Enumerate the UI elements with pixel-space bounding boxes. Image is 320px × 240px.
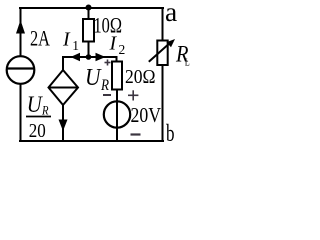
svg-text:U: U xyxy=(85,64,103,91)
current source 2A bar xyxy=(7,67,34,69)
label fraction bar xyxy=(26,116,51,118)
wire right branch upper xyxy=(162,7,164,41)
wire diamond bottom lead xyxy=(62,105,64,141)
svg-text:R: R xyxy=(100,77,109,94)
svg-text:b: b xyxy=(166,120,175,147)
svg-text:U: U xyxy=(27,92,43,117)
wire left branch upper xyxy=(20,7,22,57)
svg-text:20Ω: 20Ω xyxy=(125,66,156,88)
wire through 20V source xyxy=(116,90,118,142)
node mid junction dot xyxy=(86,54,92,60)
node top junction dot xyxy=(86,5,92,11)
svg-text:2: 2 xyxy=(119,42,126,57)
wire left branch lower xyxy=(20,83,22,141)
current I2 arrow xyxy=(96,53,106,61)
resistor RL xyxy=(157,41,167,66)
svg-text:L: L xyxy=(185,57,190,69)
wire diamond top lead xyxy=(62,56,64,70)
current source 2A circle xyxy=(7,56,35,84)
wire bottom xyxy=(19,140,164,142)
svg-text:I: I xyxy=(109,32,118,54)
current source 2A arrow xyxy=(16,20,25,34)
svg-text:a: a xyxy=(165,0,177,27)
wire 10ohm top lead xyxy=(88,8,90,19)
svg-text:20V: 20V xyxy=(131,103,162,127)
minus mark UR bottom xyxy=(103,94,111,96)
wire 10ohm bottom lead xyxy=(88,42,90,58)
wire 20ohm top corner xyxy=(116,56,118,62)
dependent source bar xyxy=(49,87,79,89)
svg-text:1: 1 xyxy=(72,38,79,53)
minus mark 20V bottom xyxy=(131,133,141,135)
resistor 10ohm xyxy=(83,19,94,42)
svg-text:R: R xyxy=(41,103,48,118)
wire middle horizontal xyxy=(63,56,117,58)
svg-text:2A: 2A xyxy=(30,26,50,51)
svg-text:20: 20 xyxy=(29,120,46,142)
dependent source down arrow xyxy=(59,120,68,132)
current I1 arrow xyxy=(71,53,81,61)
dependent source diamond xyxy=(49,70,79,105)
voltage source 20V circle xyxy=(104,101,130,127)
svg-text:10Ω: 10Ω xyxy=(94,13,123,38)
wire right branch lower xyxy=(162,65,164,141)
plus mark 20V top xyxy=(128,90,138,100)
wire top xyxy=(19,7,164,9)
plus mark UR top xyxy=(105,60,111,66)
svg-text:I: I xyxy=(62,29,71,51)
resistor 20ohm xyxy=(112,62,122,90)
resistor RL variable arrow xyxy=(149,42,171,62)
